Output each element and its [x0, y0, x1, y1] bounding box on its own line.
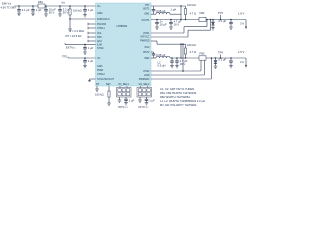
resistor R2 SET — [95, 86, 110, 103]
ground — [175, 66, 179, 68]
svg-text:BST1: BST1 — [143, 7, 150, 10]
svg-text:FB1: FB2 WURTH 742792040: FB1: FB2 WURTH 742792040 — [160, 91, 197, 95]
svg-text:VO_SEL2: VO_SEL2 — [139, 83, 150, 86]
capacitor C10 0.1uF — [219, 19, 233, 30]
svg-text:L1, L2: WURTH 74438356022 2.2: L1, L2: WURTH 74438356022 2.2 µH — [160, 99, 205, 103]
test point TP4 — [218, 51, 223, 59]
svg-text:ILIM: ILIM — [97, 43, 102, 46]
svg-text:0.1 µF: 0.1 µF — [219, 19, 227, 23]
pin stub ADJ — [88, 40, 96, 42]
svg-text:PWRGD2: PWRGD2 — [139, 78, 150, 81]
svg-text:FB3: FB3 — [200, 52, 205, 56]
svg-text:3 A: 3 A — [240, 60, 244, 64]
diode D2 — [214, 57, 218, 68]
svg-text:50 V: 50 V — [49, 10, 55, 14]
pin stub TRK — [88, 36, 96, 38]
pin stub PGOOD — [88, 23, 96, 25]
svg-text:VO_SEL1: VO_SEL1 — [118, 83, 129, 86]
svg-text:100 kΩ: 100 kΩ — [95, 92, 104, 96]
svg-text:16 V: 16 V — [174, 23, 180, 27]
svg-text:4.7 Ω: 4.7 Ω — [190, 12, 197, 16]
svg-text:GND: GND — [144, 74, 150, 77]
svg-text:BST2: BST2 — [143, 51, 150, 54]
svg-text:CTRL2: CTRL2 — [97, 73, 105, 76]
capacitor C7 1uF — [83, 58, 93, 65]
IC U1 right pin labels — [139, 4, 150, 81]
svg-text:3 A: 3 A — [240, 22, 244, 26]
ground — [83, 65, 87, 67]
ground under JP2 — [138, 97, 142, 102]
IC U1 body — [96, 3, 152, 86]
svg-text:LT8653S: LT8653S — [117, 24, 128, 28]
output VOUT2 load — [238, 50, 247, 68]
svg-text:VOS2: VOS2 — [143, 70, 150, 73]
notes text block — [160, 87, 205, 107]
node dots input rail — [18, 5, 20, 7]
wire VOS2 sense — [151, 43, 201, 71]
svg-text:16 V: 16 V — [180, 62, 186, 66]
capacitor C4 2.2uF — [58, 6, 71, 14]
svg-text:1 µF: 1 µF — [36, 8, 42, 12]
svg-text:PGOOD: PGOOD — [97, 23, 106, 26]
capacitor C1 0.1uF — [17, 6, 30, 13]
ground — [155, 27, 159, 29]
svg-text:INTVCC: INTVCC — [140, 35, 149, 38]
svg-text:C1, C2: GRT TAIYO YUDEN: C1, C2: GRT TAIYO YUDEN — [160, 87, 194, 91]
wire VC — [62, 54, 96, 58]
pin stub CTRL1 — [88, 27, 96, 29]
svg-text:0.1 µF: 0.1 µF — [22, 8, 30, 12]
ground under JP1 — [118, 97, 122, 102]
ferrite bead FB2 — [199, 11, 206, 22]
svg-text:PWM: PWM — [97, 69, 103, 72]
svg-text:VOS1: VOS1 — [143, 32, 150, 35]
svg-text:50 V: 50 V — [63, 10, 69, 14]
ground — [107, 103, 111, 105]
resistor R4 100k — [184, 43, 195, 59]
svg-text:FB2 WURTH 742792664: FB2 WURTH 742792664 — [160, 95, 190, 99]
svg-text:1 µF: 1 µF — [149, 98, 155, 102]
wire input rail — [15, 5, 96, 7]
svg-text:TRK: TRK — [97, 36, 102, 39]
wire PGND sense — [151, 57, 212, 79]
ground — [31, 13, 35, 15]
svg-text:4.5V TO 38V: 4.5V TO 38V — [1, 5, 17, 9]
capacitor C11 4.7uF — [170, 57, 174, 65]
svg-text:100 kΩ: 100 kΩ — [73, 8, 82, 12]
pin stub VCL — [88, 32, 96, 34]
svg-text:1 µH: 1 µH — [171, 8, 177, 12]
ferrite bead FB1 — [38, 0, 45, 8]
diode D1 — [211, 19, 215, 30]
svg-text:CTRL1: CTRL1 — [97, 27, 105, 30]
capacitor C8 — [155, 19, 167, 27]
IC U1 left pin labels — [97, 5, 115, 81]
wire INTVCC sense — [151, 19, 211, 37]
svg-text:SW1: SW1 — [144, 13, 150, 16]
svg-text:f = 2.4 MHz: f = 2.4 MHz — [71, 29, 85, 33]
inductor L2 — [151, 56, 246, 67]
svg-text:1.8 V: 1.8 V — [238, 11, 244, 15]
svg-text:RT: RT — [96, 83, 100, 86]
wire BST1 top rail — [151, 5, 186, 20]
svg-text:100 kΩ: 100 kΩ — [187, 43, 196, 47]
annotation f / RT — [66, 29, 85, 38]
capacitor C15 4.7uF — [175, 57, 187, 66]
svg-text:VCL: VCL — [97, 32, 102, 35]
ground — [17, 13, 21, 15]
svg-text:1 µF: 1 µF — [88, 59, 94, 63]
ground — [44, 14, 48, 16]
svg-text:0.1 µF: 0.1 µF — [219, 58, 227, 62]
capacitor C12 0.1uF — [219, 57, 233, 68]
svg-text:TP3: TP3 — [218, 11, 223, 15]
wire ILIM — [65, 43, 96, 49]
capacitor C14 under JP2 — [145, 97, 155, 105]
wire GND sense — [151, 60, 205, 75]
IC U1 bottom pin labels — [96, 83, 150, 86]
svg-text:PG2: PG2 — [145, 46, 151, 49]
ground — [83, 15, 87, 17]
capacitor BST2 0.68uF — [151, 52, 166, 58]
ground — [58, 14, 62, 16]
capacitor BST1 0.68uF — [152, 6, 166, 14]
resistor R1 100k — [69, 6, 82, 19]
ferrite bead FB3 — [199, 52, 206, 61]
svg-text:100 kΩ: 100 kΩ — [187, 3, 196, 7]
wire VOUT1 rail — [151, 19, 246, 21]
test point TP3 — [218, 11, 223, 20]
ground — [68, 29, 72, 31]
output VOUT1 load — [238, 11, 247, 29]
capacitor C9 4.7uF — [169, 19, 181, 27]
wire RUN — [69, 18, 95, 29]
inductor L1 1uH — [151, 8, 181, 15]
svg-text:SYNC/SLVOUT: SYNC/SLVOUT — [97, 78, 115, 81]
ground — [169, 27, 173, 29]
svg-text:M1, M2: POLARITY 74279262: M1, M2: POLARITY 74279262 — [160, 103, 197, 107]
svg-text:FB1: FB1 — [38, 0, 43, 4]
capacitor C6 1uF — [83, 44, 93, 52]
input label VIN — [1, 1, 17, 9]
capacitor C3 10uF 50V — [44, 6, 56, 14]
ground RT pin — [95, 86, 99, 91]
svg-text:RT = 10.5 kΩ: RT = 10.5 kΩ — [66, 34, 82, 38]
svg-text:FB2: FB2 — [200, 11, 205, 15]
svg-text:VC: VC — [97, 57, 101, 60]
svg-text:1 µF: 1 µF — [88, 46, 94, 50]
wire PWRGD — [151, 41, 186, 59]
svg-text:TP2: TP2 — [62, 54, 67, 58]
ground — [83, 52, 87, 54]
capacitor C5 1uF — [83, 6, 93, 15]
svg-text:SW2: SW2 — [144, 57, 150, 60]
jumper JP2 — [137, 86, 152, 97]
svg-text:1 µF: 1 µF — [129, 98, 135, 102]
capacitor C13 under JP1 — [124, 97, 134, 105]
svg-text:TP4: TP4 — [218, 51, 223, 55]
svg-text:1 µF: 1 µF — [88, 8, 94, 12]
svg-text:SYNC: SYNC — [97, 47, 104, 50]
jumper JP1 — [117, 86, 132, 97]
ground — [170, 66, 174, 68]
wire VOS1 sense — [151, 19, 208, 33]
svg-text:GND: GND — [97, 12, 103, 15]
svg-text:1.5 V: 1.5 V — [238, 50, 244, 54]
svg-text:4.7 Ω: 4.7 Ω — [190, 50, 197, 54]
capacitor C2 1uF — [31, 6, 41, 13]
pin stub SYNC/SLVOUT with ground — [88, 79, 95, 82]
resistor R3 100k — [184, 3, 195, 20]
svg-text:0.5 µH: 0.5 µH — [158, 64, 166, 68]
svg-text:VOUT1: VOUT1 — [141, 19, 150, 22]
svg-text:RUN/UVLO: RUN/UVLO — [97, 18, 110, 21]
svg-text:SET: SET — [106, 83, 111, 86]
svg-text:10 µF: 10 µF — [160, 23, 167, 27]
svg-text:PWRGD: PWRGD — [140, 39, 150, 42]
svg-text:GND: GND — [97, 65, 103, 68]
